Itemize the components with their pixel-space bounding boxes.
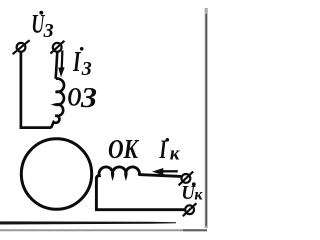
terminal T3 (upper output terminal) xyxy=(179,172,194,186)
wire from coil OK to terminal T3 xyxy=(139,175,181,177)
label I3 (current) xyxy=(72,46,91,80)
svg-text:3: 3 xyxy=(43,20,54,42)
terminal T4 (lower output terminal) xyxy=(183,203,197,216)
label Uk (voltage with dot) xyxy=(181,182,203,204)
wire left vertical from T1 xyxy=(20,52,23,129)
current arrow Ik (pointing left) xyxy=(152,168,178,175)
wire bottom horizontal of U3 loop xyxy=(20,126,52,129)
wire from T2 down to coil O3 xyxy=(56,52,58,79)
page edge shadow (bottom) xyxy=(0,229,207,231)
svg-text:к: к xyxy=(194,186,203,203)
label U3 (voltage U3 with dot) xyxy=(31,10,53,43)
wire bottom of OK loop to T4 xyxy=(95,208,184,211)
machine rotor circle xyxy=(21,139,91,209)
current arrow I3 (pointing down) xyxy=(58,51,64,78)
coil O3 (winding, humps facing right) xyxy=(51,79,64,128)
svg-text:3: 3 xyxy=(80,82,97,114)
terminal T1 (left input terminal) xyxy=(13,40,30,54)
svg-text:O: O xyxy=(68,82,82,111)
svg-text:I: I xyxy=(159,135,167,164)
wire vertical left side of OK loop xyxy=(95,178,98,211)
svg-text:3: 3 xyxy=(81,58,92,80)
svg-text:к: к xyxy=(170,143,181,164)
svg-text:OK: OK xyxy=(108,134,140,164)
terminal T2 (right input terminal) xyxy=(50,41,64,54)
label Ik (current) xyxy=(159,135,181,164)
svg-text:I: I xyxy=(72,46,81,78)
page edge shadow (right border) xyxy=(205,8,208,228)
coil OK (winding, humps facing up) xyxy=(96,167,139,179)
text baseline rule (book fragment) xyxy=(0,221,176,224)
